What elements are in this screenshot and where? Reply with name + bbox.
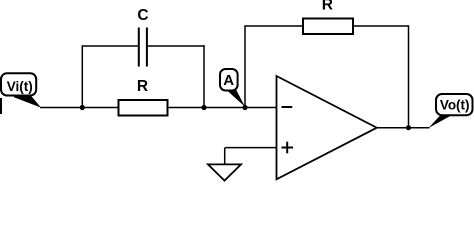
tag Vo(t)	[436, 94, 473, 115]
svg-text:A: A	[223, 72, 234, 89]
wire: left vertical of parallel RC branch	[81, 45, 83, 107]
wire: main input wire from Vi(t) to op-amp inverting input	[40, 107, 277, 109]
wire: non-inverting input wire	[225, 147, 277, 149]
op-amp plus pin mark	[282, 147, 294, 149]
svg-text:Vo(t): Vo(t)	[440, 98, 470, 113]
ground	[208, 164, 241, 180]
tag Vi(t) tail	[14, 95, 41, 108]
svg-text:R: R	[137, 78, 148, 95]
capacitor C plates	[138, 28, 140, 67]
wire: top branch right segment from capacitor	[148, 45, 205, 47]
node junction dot (left of RC pair)	[80, 105, 85, 110]
op-amp minus pin mark	[282, 106, 293, 108]
node junction dot (output)	[406, 125, 411, 130]
wire: vertical to ground	[224, 148, 226, 164]
svg-text:Vi(t): Vi(t)	[7, 79, 33, 94]
wire: top branch left segment to capacitor	[82, 45, 138, 47]
node A junction dot	[242, 105, 247, 110]
wire: output wire	[377, 127, 430, 129]
resistor R1 (input)	[119, 100, 168, 116]
wire: right vertical of parallel RC branch	[203, 45, 205, 107]
svg-text:R: R	[322, 0, 333, 13]
tag A (node A)	[220, 69, 238, 91]
svg-text:C: C	[137, 7, 148, 24]
op-amp U1	[277, 76, 377, 179]
tag Vo(t) tail	[429, 115, 454, 129]
wire: feedback loop from node A over the top to output	[245, 26, 409, 128]
tag A tail	[226, 90, 245, 107]
resistor R2 (feedback)	[303, 19, 353, 35]
stray mark at left edge	[0, 98, 2, 114]
tag Vi(t)	[1, 73, 36, 95]
node junction dot (right of RC pair)	[201, 105, 206, 110]
